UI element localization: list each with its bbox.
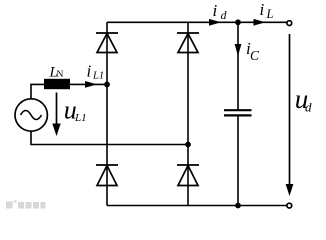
wire source bottom lead to right leg (31, 132, 188, 145)
svg-text:d: d (221, 8, 228, 22)
node J4 (bottom bus / capacitor junction dot) (235, 203, 241, 209)
node J1 (left leg / source junction dot) (104, 82, 110, 88)
wire left bridge leg (106, 22, 108, 205)
voltage arrow u_d (286, 34, 294, 196)
svg-text:i: i (260, 0, 265, 19)
AC source G (15, 99, 47, 131)
svg-text:i: i (87, 62, 92, 81)
svg-text:L1: L1 (92, 71, 104, 82)
diode VD4 (bottom left) (96, 165, 118, 186)
node J2 (right leg / source junction dot) (185, 142, 191, 148)
wire right bridge leg (187, 22, 189, 205)
svg-text:C: C (250, 48, 260, 63)
diode VD1 (top left) (96, 33, 118, 53)
current arrow i_L (254, 19, 266, 26)
watermark (6, 201, 46, 209)
svg-text:L: L (266, 7, 274, 21)
wire top bus (107, 21, 287, 23)
diode VD2 (bottom right) (177, 165, 199, 186)
svg-text:N: N (57, 70, 64, 80)
terminal T- (bottom output) (287, 203, 292, 208)
capacitor C plates (224, 110, 252, 115)
wire capacitor branch lower (237, 115, 239, 205)
node J3 (top bus / capacitor junction dot) (235, 19, 241, 25)
current arrow i_d (209, 19, 221, 26)
svg-text:i: i (213, 1, 218, 20)
wire capacitor branch upper (237, 22, 239, 110)
diode VD3 (top right) (177, 33, 199, 53)
wire bottom bus (107, 205, 287, 207)
inductor L_N (44, 79, 70, 89)
terminal T+ (top output) (287, 21, 292, 26)
svg-text:L1: L1 (74, 112, 87, 124)
voltage arrow u_L1 (52, 93, 60, 137)
wire source top lead to inductor (31, 84, 107, 98)
current arrow i_C (235, 44, 242, 56)
svg-text:d: d (305, 100, 312, 115)
current arrow i_L1 (85, 81, 97, 88)
